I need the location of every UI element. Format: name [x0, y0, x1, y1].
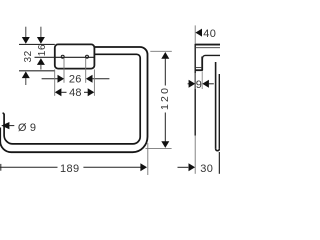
dimension 120: extension lines: [150, 50, 172, 52]
plate hinge arc right: [86, 55, 89, 58]
dimension 48: line and arrows: [55, 88, 95, 96]
dim ref line bottom (32): [19, 70, 55, 72]
side view plate front face: [201, 57, 203, 71]
side view ring tube outer edge: [218, 74, 220, 149]
svg-text:16: 16: [37, 44, 48, 56]
dim ref line mid (16): [35, 56, 55, 58]
dimension 189: line: [0, 163, 147, 171]
dimension 48: extension lines: [54, 69, 56, 95]
side view wall extension down (30 dim): [194, 136, 196, 174]
side view plate bottom: [195, 69, 203, 71]
svg-text:48: 48: [69, 87, 82, 99]
plate hinge arc left: [61, 55, 64, 58]
dimension 30: line, arrows: [178, 163, 221, 171]
svg-text:9: 9: [196, 79, 202, 91]
dimension 40 arrow: [195, 29, 202, 37]
side view arm inner line: [195, 47, 220, 49]
side view ring tube bottom cap: [216, 149, 220, 151]
dimension 189 extension line right: [147, 143, 149, 175]
towel ring front view: outer tube outline: [0, 47, 147, 152]
side view wall line: [194, 44, 196, 136]
side view arm bottom edge: [202, 55, 220, 58]
svg-text:189: 189: [60, 163, 80, 175]
dimension 9: arrows and tails: [188, 80, 214, 88]
svg-text:26: 26: [69, 74, 82, 86]
svg-text:120: 120: [159, 86, 171, 110]
side view arm top edge: [195, 44, 220, 46]
dimension 26: extension lines: [63, 58, 65, 83]
side view wall extension up (40 dim): [194, 25, 196, 43]
side view ring tube inner edge: [215, 62, 217, 149]
side view plate inner thin line: [195, 67, 202, 69]
dimension 120: line and arrows: [161, 52, 169, 148]
dimension 26: line and arrows: [42, 75, 110, 83]
dimension 16: stems and arrows: [37, 27, 45, 70]
svg-text:40: 40: [203, 28, 216, 40]
dimension 30 extension right: [218, 152, 220, 174]
wall plate front view: [55, 44, 95, 68]
svg-text:30: 30: [200, 163, 213, 175]
svg-text:32: 32: [23, 50, 34, 62]
plate middle line: [55, 56, 95, 58]
towel ring front view: inner tube outline: [3, 54, 141, 144]
diameter 9 leader arrow: [1, 122, 9, 129]
svg-text:Ø 9: Ø 9: [18, 122, 36, 134]
dimension 32: stems and arrows: [22, 27, 30, 85]
dim ref line top (plate top extended left): [19, 43, 55, 45]
dimension 9: extension lines: [194, 73, 196, 89]
